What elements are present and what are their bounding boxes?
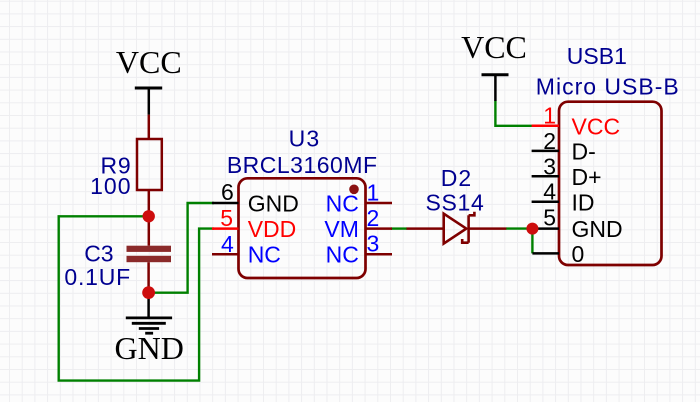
svg-text:0.1UF: 0.1UF [64,264,131,290]
svg-text:VDD: VDD [248,216,297,242]
svg-text:1: 1 [543,103,556,129]
svg-text:GND: GND [115,330,184,366]
svg-text:D+: D+ [572,164,602,190]
svg-text:NC: NC [326,191,359,217]
svg-text:SS14: SS14 [425,190,484,216]
svg-text:5: 5 [220,205,233,231]
svg-text:1: 1 [367,180,380,206]
svg-text:BRCL3160MF: BRCL3160MF [227,152,378,178]
svg-text:ID: ID [572,190,595,216]
svg-text:U3: U3 [289,126,321,152]
svg-text:GND: GND [572,216,623,242]
svg-text:4: 4 [543,179,556,205]
svg-text:5: 5 [543,204,556,230]
svg-text:VCC: VCC [461,29,527,65]
svg-text:2: 2 [543,128,556,154]
svg-text:Micro USB-B: Micro USB-B [536,74,680,100]
svg-text:3: 3 [367,231,380,257]
svg-text:C3: C3 [84,240,113,266]
svg-text:VCC: VCC [572,113,621,139]
svg-text:NC: NC [248,242,281,268]
svg-text:6: 6 [221,179,234,205]
svg-text:D-: D- [572,139,596,165]
svg-text:NC: NC [326,242,359,268]
svg-text:D2: D2 [441,165,472,191]
svg-text:0: 0 [572,241,585,267]
svg-text:3: 3 [543,153,556,179]
svg-text:VM: VM [324,216,359,242]
svg-text:4: 4 [221,231,234,257]
svg-text:2: 2 [367,205,380,231]
svg-text:GND: GND [248,191,299,217]
svg-text:100: 100 [90,173,131,199]
svg-text:USB1: USB1 [567,43,627,69]
svg-text:VCC: VCC [116,44,182,80]
